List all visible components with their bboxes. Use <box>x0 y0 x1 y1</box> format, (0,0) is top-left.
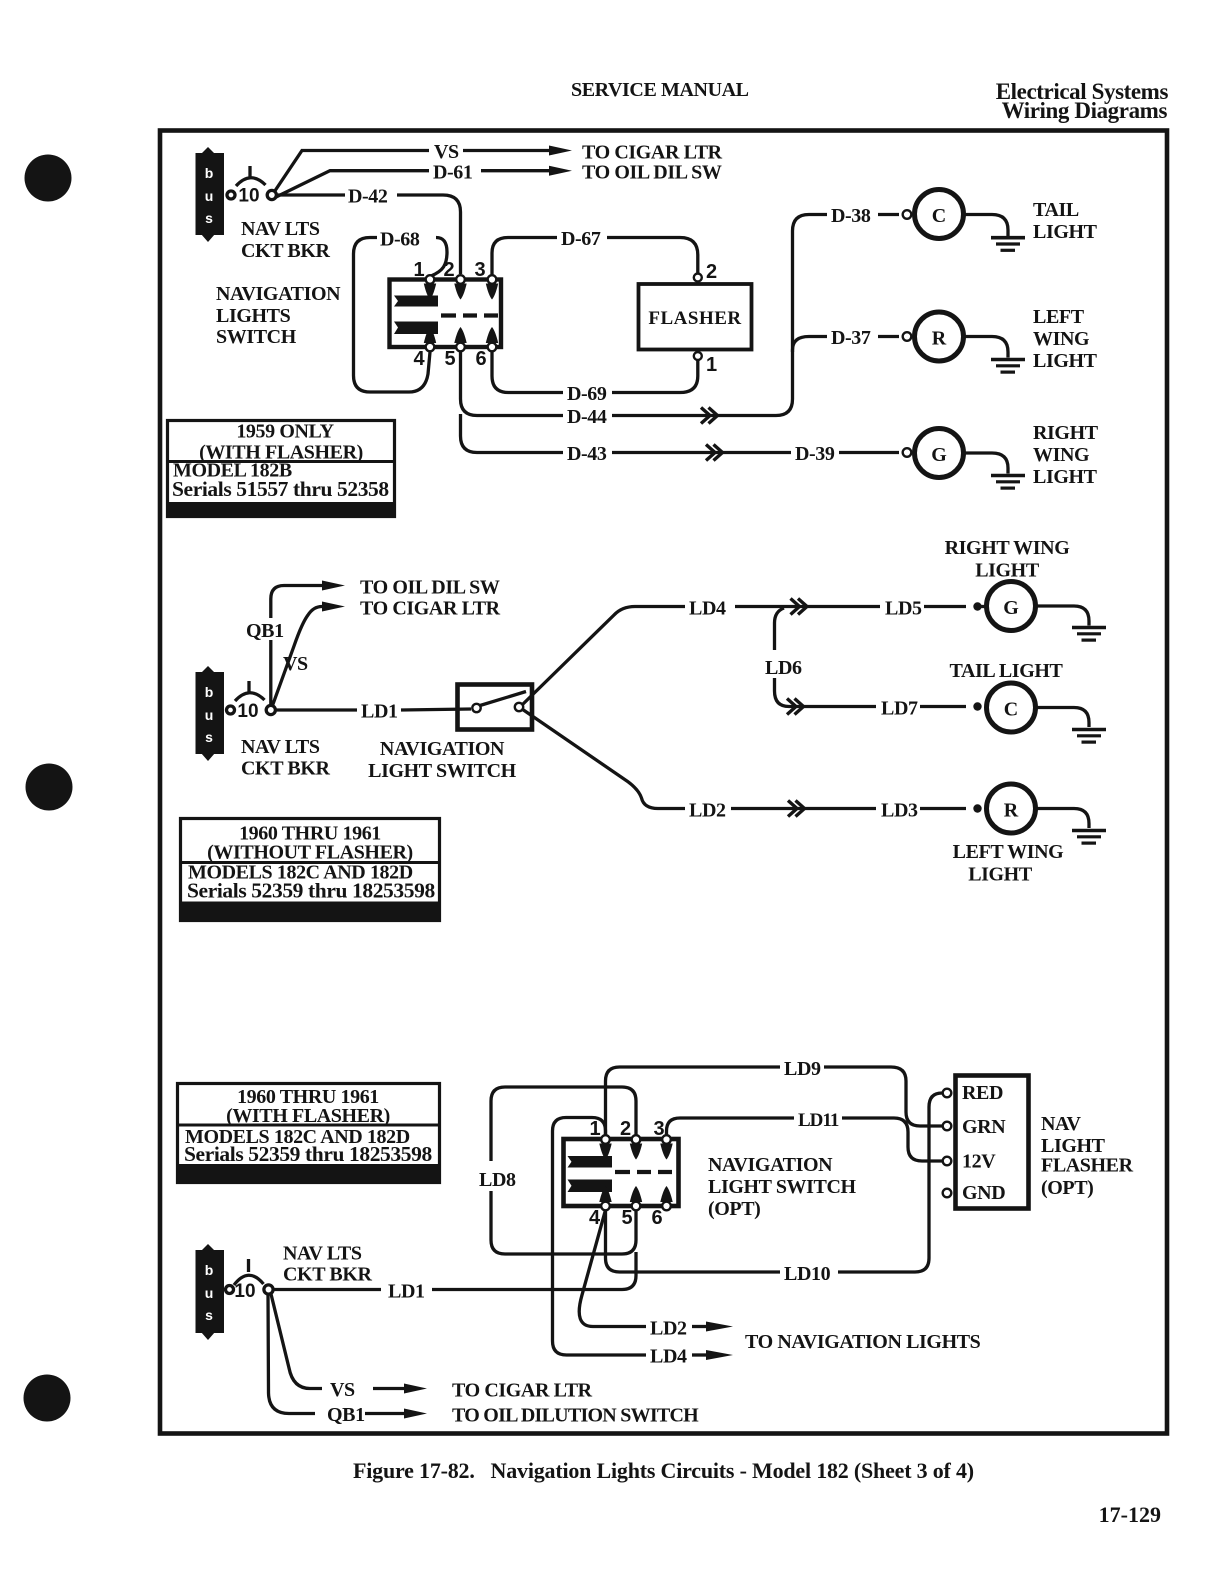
callout box 1960-1961 without flasher <box>181 819 440 921</box>
svg-text:LD7: LD7 <box>881 698 918 720</box>
arrow VS <box>322 602 345 612</box>
svg-text:(OPT): (OPT) <box>1041 1177 1093 1199</box>
svg-text:VS: VS <box>434 141 459 163</box>
svg-text:SERVICE MANUAL: SERVICE MANUAL <box>571 79 749 101</box>
svg-text:D-44: D-44 <box>567 406 607 428</box>
svg-text:LD9: LD9 <box>784 1058 821 1080</box>
wire VS <box>275 151 430 192</box>
breaker 2 arc <box>235 693 265 701</box>
svg-text:10: 10 <box>234 1281 255 1302</box>
svg-text:LD10: LD10 <box>784 1263 831 1285</box>
svg-text:SWITCH: SWITCH <box>216 326 297 348</box>
label NAVIGATION LIGHTS SWITCH <box>216 283 341 348</box>
svg-text:1959 ONLY: 1959 ONLY <box>236 421 334 443</box>
svg-text:D-67: D-67 <box>561 228 601 250</box>
svg-text:TO OIL DIL SW: TO OIL DIL SW <box>582 162 722 184</box>
left wing lamp R <box>915 312 964 361</box>
wire VS (circuit3) <box>271 1294 322 1389</box>
svg-text:NAV: NAV <box>1041 1113 1082 1135</box>
svg-text:TO CIGAR LTR: TO CIGAR LTR <box>582 142 723 164</box>
svg-text:TO CIGAR LTR: TO CIGAR LTR <box>360 598 501 620</box>
left wing ground wire <box>964 337 1009 358</box>
svg-text:5: 5 <box>621 1207 632 1229</box>
svg-text:1: 1 <box>706 354 717 376</box>
svg-text:C: C <box>932 205 946 227</box>
junction dot LD3 <box>973 804 981 812</box>
svg-text:5: 5 <box>444 348 455 370</box>
breaker 2 terminal <box>227 706 235 714</box>
left wing lamp R (circuit2) <box>987 784 1036 833</box>
svg-text:Serials 51557 thru 52358: Serials 51557 thru 52358 <box>172 477 389 501</box>
label TAIL LIGHT <box>1033 199 1098 243</box>
label NAV LTS CKT BKR (circuit 3) <box>283 1243 372 1286</box>
svg-text:Figure 17-82. Navigation Lig: Figure 17-82. Navigation Lights Circuits… <box>353 1458 974 1483</box>
svg-text:QB1: QB1 <box>246 620 284 642</box>
svg-text:NAV LTS: NAV LTS <box>241 736 320 758</box>
wire D-67 pin3 to flasher pin2 <box>492 238 557 276</box>
nav light flasher body <box>956 1076 1029 1209</box>
svg-text:Serials 52359 thru 18253598: Serials 52359 thru 18253598 <box>184 1142 432 1166</box>
ground wire (G circuit2) <box>1036 606 1090 626</box>
wire D-69 pin6 to flasher pin1 <box>492 352 563 393</box>
arrow LD4 <box>692 1353 706 1356</box>
svg-text:LD3: LD3 <box>881 800 918 822</box>
svg-text:RIGHT WING: RIGHT WING <box>945 537 1071 559</box>
svg-text:RED: RED <box>962 1082 1003 1104</box>
svg-text:G: G <box>1003 597 1019 619</box>
svg-text:TO OIL DIL SW: TO OIL DIL SW <box>360 577 500 599</box>
svg-text:12V: 12V <box>962 1151 996 1173</box>
svg-text:Serials 52359 thru 18253598: Serials 52359 thru 18253598 <box>187 879 435 903</box>
breaker 1 arc <box>236 178 266 186</box>
switch S3 pin circles <box>601 1135 671 1210</box>
svg-text:G: G <box>931 444 947 466</box>
svg-text:TAIL LIGHT: TAIL LIGHT <box>950 660 1064 682</box>
node at breaker 3 <box>264 1285 273 1294</box>
label RIGHT WING LIGHT (circuit2) <box>945 537 1071 582</box>
svg-text:LIGHT: LIGHT <box>968 864 1033 886</box>
wire D-61 <box>275 171 429 198</box>
svg-text:NAVIGATION: NAVIGATION <box>380 738 505 760</box>
wire D-37 branch <box>793 337 828 353</box>
junction dot LD5 <box>973 602 981 610</box>
svg-text:D-39: D-39 <box>795 443 835 465</box>
ground (tail) <box>991 236 1025 240</box>
svg-text:LIGHTS: LIGHTS <box>216 305 291 327</box>
svg-text:D-42: D-42 <box>348 186 388 208</box>
right wing lamp G <box>915 429 964 478</box>
svg-text:LD1: LD1 <box>388 1281 425 1303</box>
switch S1 pin numbers <box>413 259 486 370</box>
wire LD2 diagonal pin4 down <box>579 1210 646 1327</box>
switch S1 dashed contact line <box>441 313 498 317</box>
svg-text:4: 4 <box>413 348 425 370</box>
arrow QB1 (circuit3) <box>365 1412 404 1415</box>
ground (R circuit2) <box>1072 829 1106 833</box>
svg-text:u: u <box>205 1285 214 1301</box>
label LD5 <box>880 596 924 617</box>
label LEFT WING LIGHT <box>1033 306 1098 372</box>
svg-text:1: 1 <box>589 1118 600 1140</box>
ground (left wing) <box>991 358 1025 362</box>
hole punch top <box>25 155 72 202</box>
wire VS to arrow <box>463 149 549 152</box>
wire LD6 branch <box>775 608 785 650</box>
label NAV LTS CKT BKR (circuit 1) <box>241 218 330 262</box>
page frame <box>160 131 1167 1434</box>
left wing terminal <box>903 332 912 341</box>
svg-text:GRN: GRN <box>962 1116 1006 1138</box>
switch S3 pin numbers <box>589 1118 665 1229</box>
svg-text:LD4: LD4 <box>650 1346 687 1368</box>
label LD7 <box>876 696 920 717</box>
svg-text:LIGHT SWITCH: LIGHT SWITCH <box>708 1176 857 1198</box>
svg-text:LD2: LD2 <box>689 800 726 822</box>
svg-text:s: s <box>205 729 213 745</box>
switch S1 inner bars <box>394 284 498 344</box>
svg-text:LD8: LD8 <box>479 1169 516 1191</box>
tail light lamp C <box>915 190 964 239</box>
breaker 3 terminal <box>226 1286 234 1294</box>
label NAV LIGHT FLASHER (OPT) <box>1041 1113 1134 1199</box>
switch S3 inner bars <box>568 1144 673 1203</box>
wire LD4 diagonal from switch <box>522 607 685 706</box>
nav light flasher pins <box>943 1089 952 1098</box>
bus bar 1 <box>196 147 225 242</box>
wire D-42 <box>277 193 345 196</box>
svg-text:WING: WING <box>1033 444 1090 466</box>
svg-text:LD1: LD1 <box>361 701 398 723</box>
svg-text:NAVIGATION: NAVIGATION <box>708 1154 833 1176</box>
wire VS up to arrow <box>273 607 323 706</box>
hole punch bottom <box>24 1375 71 1422</box>
svg-text:GND: GND <box>962 1182 1005 1204</box>
svg-text:17-129: 17-129 <box>1099 1502 1161 1527</box>
wire LD9 pin1 to GRN <box>606 1067 781 1135</box>
switch S1 body <box>390 280 502 348</box>
svg-text:CKT BKR: CKT BKR <box>283 1264 372 1286</box>
callout box 1959 ONLY <box>168 421 395 517</box>
svg-text:FLASHER: FLASHER <box>1041 1155 1134 1177</box>
svg-text:D-37: D-37 <box>831 327 871 349</box>
svg-text:(WITHOUT FLASHER): (WITHOUT FLASHER) <box>207 842 413 864</box>
svg-text:u: u <box>205 707 214 723</box>
hole punch middle <box>26 764 73 811</box>
svg-text:VS: VS <box>283 653 308 675</box>
arrow to oil dil sw <box>549 166 572 176</box>
svg-text:LEFT WING: LEFT WING <box>953 841 1065 863</box>
S2 lever <box>480 692 526 706</box>
node at breaker 2 <box>266 705 275 714</box>
svg-text:RIGHT: RIGHT <box>1033 422 1099 444</box>
right wing lamp G (circuit2) <box>987 582 1036 631</box>
svg-text:3: 3 <box>653 1118 664 1140</box>
svg-text:LD2: LD2 <box>650 1318 687 1340</box>
S2 contacts <box>472 704 480 712</box>
svg-text:10: 10 <box>238 186 259 207</box>
svg-text:LD11: LD11 <box>798 1110 839 1131</box>
tail lamp C (circuit2) <box>987 683 1036 732</box>
connector chevrons LD4/LD5 <box>791 599 808 615</box>
ground (right wing) <box>991 474 1025 478</box>
connector chevrons on D-43 <box>706 445 723 461</box>
svg-text:C: C <box>1004 699 1018 721</box>
svg-text:10: 10 <box>237 701 258 722</box>
wire D-61 to arrow <box>481 169 549 172</box>
wire LD2 diagonal from switch <box>522 709 685 809</box>
wire LD11 pin3 to 12V <box>667 1118 795 1135</box>
svg-text:2: 2 <box>706 261 717 283</box>
tail light ground wire <box>964 215 1009 237</box>
wire QB1 up to arrow <box>271 586 322 706</box>
svg-text:s: s <box>205 210 213 226</box>
callout box 1960-1961 with flasher <box>178 1084 440 1184</box>
node at breaker 1 output <box>267 190 276 199</box>
label NAV LTS CKT BKR (circuit 2) <box>241 736 330 780</box>
flasher F1 pin 1 <box>694 352 702 360</box>
wire LD1 (circuit3) <box>274 1288 382 1291</box>
svg-text:R: R <box>1004 800 1019 822</box>
junction dot LD7 <box>973 702 981 710</box>
svg-text:(WITH FLASHER): (WITH FLASHER) <box>226 1105 390 1127</box>
svg-text:CKT BKR: CKT BKR <box>241 758 330 780</box>
bus bar 2 <box>196 666 225 761</box>
arrow VS (circuit3) <box>373 1387 404 1390</box>
svg-text:(OPT): (OPT) <box>708 1198 760 1220</box>
svg-text:LD6: LD6 <box>765 657 802 679</box>
connector chevrons LD7 <box>787 699 804 715</box>
breaker 3 arc <box>234 1275 264 1285</box>
label NAVIGATION LIGHT SWITCH <box>368 738 517 782</box>
svg-text:1: 1 <box>413 259 424 281</box>
connector chevrons LD3 <box>788 801 805 817</box>
svg-text:FLASHER: FLASHER <box>648 308 741 329</box>
right wing terminal <box>903 448 912 457</box>
bus bar 3 <box>196 1244 225 1340</box>
svg-text:NAV LTS: NAV LTS <box>241 218 320 240</box>
circuit breaker 1 terminal <box>227 191 235 199</box>
flasher F1 body <box>639 284 752 350</box>
svg-text:u: u <box>205 188 214 204</box>
nav light switch S2 body <box>458 685 533 730</box>
right wing ground wire <box>964 453 1009 474</box>
arrow QB1 <box>322 581 345 591</box>
svg-text:b: b <box>205 684 214 700</box>
wire LD8 loop pin2 to pin5 <box>491 1087 636 1161</box>
svg-text:NAVIGATION: NAVIGATION <box>216 283 341 305</box>
svg-text:LIGHT: LIGHT <box>1033 466 1098 488</box>
svg-text:WING: WING <box>1033 328 1090 350</box>
svg-text:LIGHT: LIGHT <box>1033 350 1098 372</box>
svg-text:b: b <box>205 1262 214 1278</box>
svg-text:2: 2 <box>620 1118 631 1140</box>
wire QB1 (circuit3) <box>268 1295 315 1414</box>
svg-text:D-43: D-43 <box>567 443 607 465</box>
svg-text:R: R <box>932 328 947 350</box>
tail light terminal <box>903 210 912 219</box>
wire LD4 loop to pin1 <box>553 1118 647 1356</box>
svg-text:LIGHT SWITCH: LIGHT SWITCH <box>368 760 517 782</box>
header text <box>571 79 1168 123</box>
connector chevrons on D-44 <box>701 408 718 424</box>
arrow LD2 <box>692 1325 706 1328</box>
svg-text:4: 4 <box>589 1207 601 1229</box>
wire D-68 loop pin1 to pin4 <box>431 238 447 277</box>
svg-text:6: 6 <box>651 1207 662 1229</box>
switch S1 pin circles <box>426 275 497 351</box>
svg-text:D-68: D-68 <box>380 229 420 251</box>
wire D-42 to switch pin 2 <box>397 195 461 274</box>
svg-text:2: 2 <box>443 259 454 281</box>
svg-text:3: 3 <box>474 259 485 281</box>
label RIGHT WING LIGHT <box>1033 422 1099 488</box>
wire LD1 <box>276 708 357 711</box>
svg-text:CKT BKR: CKT BKR <box>241 240 330 262</box>
switch S3 dashed contact line <box>615 1170 672 1174</box>
svg-text:LEFT: LEFT <box>1033 306 1085 328</box>
wire D-44 from pin5 <box>461 352 564 416</box>
svg-text:LD5: LD5 <box>885 598 922 620</box>
ground wire (C circuit2) <box>1036 708 1090 728</box>
svg-text:D-61: D-61 <box>433 162 473 184</box>
ground (G circuit2) <box>1072 626 1106 630</box>
wire LD10 pin4 to RED <box>606 1210 781 1272</box>
svg-text:Wiring Diagrams: Wiring Diagrams <box>1002 98 1168 123</box>
svg-text:TAIL: TAIL <box>1033 199 1079 221</box>
svg-text:s: s <box>205 1307 213 1323</box>
svg-text:LIGHT: LIGHT <box>1033 221 1098 243</box>
svg-text:TO NAVIGATION LIGHTS: TO NAVIGATION LIGHTS <box>745 1331 981 1353</box>
svg-text:LIGHT: LIGHT <box>975 560 1040 582</box>
svg-text:TO OIL DILUTION SWITCH: TO OIL DILUTION SWITCH <box>452 1405 699 1427</box>
svg-text:D-38: D-38 <box>831 205 871 227</box>
svg-text:b: b <box>205 165 214 181</box>
flasher F1 pin 2 <box>694 274 702 282</box>
wire D-43 from pin5 lower <box>461 414 564 453</box>
svg-text:VS: VS <box>330 1379 355 1401</box>
ground wire (R circuit2) <box>1036 809 1090 829</box>
ground (C circuit2) <box>1072 728 1106 732</box>
svg-text:6: 6 <box>475 348 486 370</box>
label LD3 <box>876 798 920 819</box>
svg-text:LD4: LD4 <box>689 598 726 620</box>
label NAVIGATION LIGHT SWITCH (OPT) <box>708 1154 857 1220</box>
label LEFT WING LIGHT (circuit2) <box>953 841 1065 886</box>
switch S3 body <box>564 1139 679 1206</box>
svg-text:TO CIGAR LTR: TO CIGAR LTR <box>452 1380 593 1402</box>
arrow to cigar ltr <box>549 146 572 156</box>
svg-text:D-69: D-69 <box>567 383 607 405</box>
svg-text:NAV LTS: NAV LTS <box>283 1243 362 1265</box>
svg-text:QB1: QB1 <box>327 1404 365 1426</box>
